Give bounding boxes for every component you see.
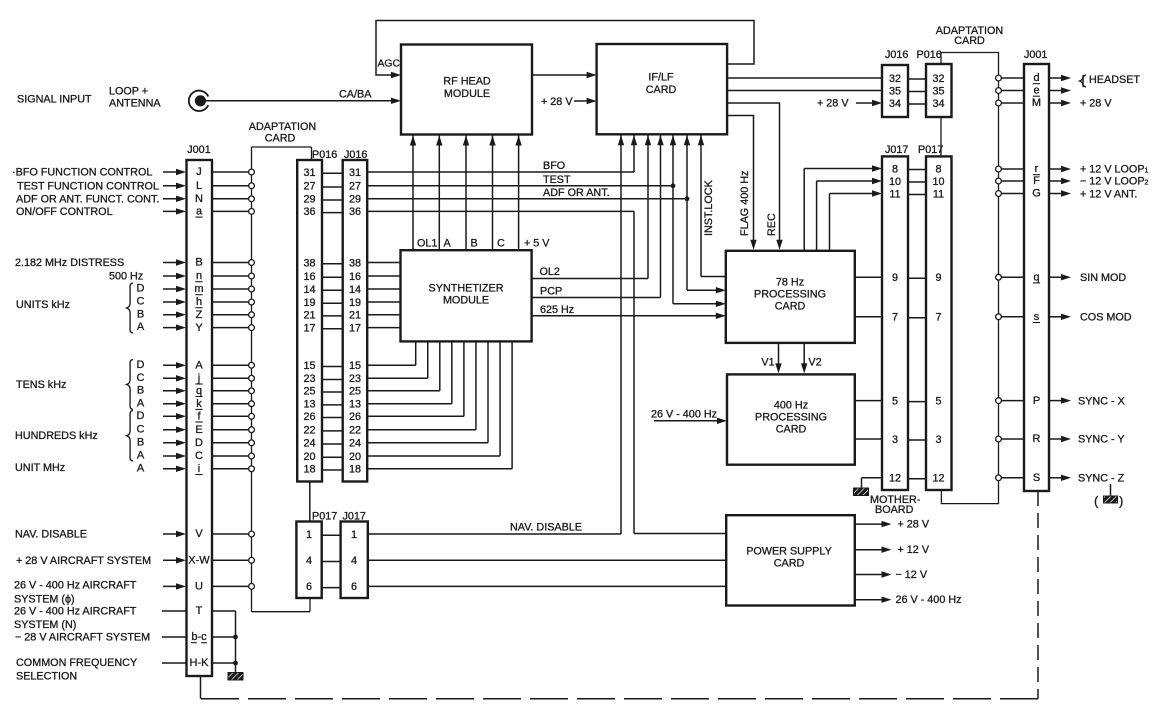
svg-text:A: A	[137, 397, 145, 409]
svg-text:TEST: TEST	[543, 174, 571, 186]
svg-text:8: 8	[935, 163, 941, 175]
svg-text:J: J	[196, 166, 202, 178]
svg-text:8: 8	[892, 163, 898, 175]
svg-text:36: 36	[303, 206, 315, 218]
svg-text:s: s	[1034, 311, 1040, 323]
svg-text:+ 12 V: + 12 V	[898, 544, 930, 556]
svg-text:20: 20	[349, 451, 361, 463]
svg-text:4: 4	[351, 555, 357, 567]
svg-text:P016: P016	[917, 49, 942, 61]
svg-text:TEST FUNCTION CONTROL: TEST FUNCTION CONTROL	[17, 180, 159, 192]
svg-text:q: q	[196, 385, 202, 397]
svg-text:29: 29	[349, 194, 361, 206]
svg-text:23: 23	[349, 373, 361, 385]
svg-text:CARD: CARD	[265, 132, 296, 144]
svg-text:P016: P016	[312, 149, 337, 161]
svg-text:9: 9	[892, 272, 898, 284]
svg-text:31: 31	[349, 167, 361, 179]
svg-text:Z: Z	[196, 309, 203, 321]
svg-text:B: B	[195, 257, 202, 269]
svg-text:b-c: b-c	[191, 631, 207, 643]
svg-text:1: 1	[351, 529, 357, 541]
svg-text:A: A	[137, 462, 145, 474]
svg-text:REC: REC	[766, 213, 778, 236]
svg-text:P017: P017	[312, 511, 337, 523]
svg-text:q: q	[1033, 271, 1039, 283]
svg-text:L: L	[196, 180, 202, 192]
svg-text:A: A	[444, 238, 452, 250]
svg-text:CA/BA: CA/BA	[339, 89, 372, 101]
svg-text:SYSTEM (ϕ): SYSTEM (ϕ)	[14, 594, 75, 606]
svg-text:35: 35	[932, 85, 944, 97]
svg-text:SELECTION: SELECTION	[16, 671, 77, 683]
svg-text:R: R	[1033, 433, 1041, 445]
svg-text:SYNC - Y: SYNC - Y	[1078, 434, 1125, 446]
svg-text:SIN MOD: SIN MOD	[1080, 272, 1126, 284]
svg-text:CARD: CARD	[646, 84, 677, 96]
svg-text:D: D	[137, 359, 145, 371]
svg-text:38: 38	[349, 257, 361, 269]
svg-text:V2: V2	[808, 357, 821, 369]
svg-text:M: M	[1032, 97, 1041, 109]
svg-text:ADF OR ANT.: ADF OR ANT.	[543, 187, 610, 199]
svg-text:ADF OR ANT. FUNCT. CONT.: ADF OR ANT. FUNCT. CONT.	[16, 193, 159, 205]
svg-text:27: 27	[349, 181, 361, 193]
svg-text:29: 29	[303, 194, 315, 206]
svg-text:10: 10	[889, 176, 901, 188]
svg-text:32: 32	[889, 73, 901, 85]
svg-text:m: m	[194, 283, 203, 295]
svg-text:11: 11	[889, 188, 900, 200]
svg-text:25: 25	[349, 386, 361, 398]
svg-text:4: 4	[306, 555, 312, 567]
svg-text:500 Hz: 500 Hz	[109, 271, 143, 283]
svg-text:U: U	[195, 581, 203, 593]
svg-text:TENS kHz: TENS kHz	[16, 379, 66, 391]
svg-text:B: B	[137, 384, 144, 396]
svg-text:SIGNAL INPUT: SIGNAL INPUT	[17, 94, 92, 106]
svg-text:32: 32	[932, 73, 944, 85]
svg-text:PROCESSING: PROCESSING	[754, 289, 826, 301]
svg-text:38: 38	[303, 257, 315, 269]
svg-text:B: B	[137, 308, 144, 320]
svg-text:11: 11	[933, 188, 944, 200]
svg-text:COMMON FREQUENCY: COMMON FREQUENCY	[16, 657, 137, 669]
svg-text:a: a	[196, 206, 203, 218]
svg-text:+ 5 V: + 5 V	[524, 238, 550, 250]
svg-text:C: C	[137, 372, 145, 384]
svg-text:j: j	[197, 373, 200, 385]
svg-text:NAV. DISABLE: NAV. DISABLE	[15, 529, 87, 541]
svg-text:e: e	[1033, 85, 1039, 97]
svg-text:SYSTEM (N): SYSTEM (N)	[14, 619, 76, 631]
svg-text:X-W: X-W	[188, 555, 210, 567]
svg-text:+ 28 V: + 28 V	[817, 98, 849, 110]
svg-text:CARD: CARD	[775, 301, 806, 313]
svg-text:J017: J017	[343, 511, 366, 523]
svg-text:SYNC - Z: SYNC - Z	[1078, 473, 1125, 485]
svg-text:36: 36	[349, 206, 361, 218]
svg-text:RF HEAD: RF HEAD	[443, 76, 491, 88]
svg-text:12: 12	[932, 473, 944, 485]
svg-text:·BFO FUNCTION CONTROL: ·BFO FUNCTION CONTROL	[12, 167, 152, 179]
svg-text:SYNTHETIZER: SYNTHETIZER	[429, 283, 504, 295]
svg-text:CARD: CARD	[774, 558, 805, 570]
svg-text:6: 6	[351, 581, 357, 593]
svg-text:15: 15	[303, 360, 315, 372]
svg-text:V1: V1	[761, 357, 774, 369]
svg-text:12: 12	[889, 473, 901, 485]
svg-text:17: 17	[349, 322, 361, 334]
svg-text:UNIT MHz: UNIT MHz	[15, 462, 65, 474]
svg-text:J017: J017	[885, 144, 908, 156]
svg-text:PCP: PCP	[540, 286, 562, 298]
svg-text:A: A	[137, 450, 145, 462]
svg-text:UNITS kHz: UNITS kHz	[16, 299, 70, 311]
svg-text:− 12 V LOOP2: − 12 V LOOP2	[1080, 176, 1149, 188]
svg-text:15: 15	[349, 360, 361, 372]
svg-text:D: D	[137, 283, 145, 295]
svg-text:+ 12 V ANT.: + 12 V ANT.	[1080, 189, 1137, 201]
svg-text:7: 7	[892, 312, 898, 324]
svg-text:C: C	[137, 423, 145, 435]
svg-text:5: 5	[935, 395, 941, 407]
svg-text:26: 26	[349, 411, 361, 423]
svg-text:r: r	[1035, 163, 1039, 175]
svg-text:26 V - 400 Hz AIRCRAFT: 26 V - 400 Hz AIRCRAFT	[14, 580, 137, 592]
svg-text:+ 28 V AIRCRAFT SYSTEM: + 28 V AIRCRAFT SYSTEM	[16, 555, 151, 567]
svg-text:D: D	[137, 410, 145, 422]
svg-text:5: 5	[892, 395, 898, 407]
svg-text:OL1: OL1	[417, 238, 437, 250]
svg-text:13: 13	[349, 399, 361, 411]
svg-text:+ 28 V: + 28 V	[898, 519, 930, 531]
svg-text:OL2: OL2	[540, 266, 560, 278]
svg-text:34: 34	[889, 98, 901, 110]
svg-text:LOOP +: LOOP +	[109, 86, 148, 98]
svg-text:10: 10	[932, 176, 944, 188]
svg-text:17: 17	[303, 322, 315, 334]
svg-text:A: A	[195, 360, 203, 372]
svg-text:− 12 V: − 12 V	[896, 569, 928, 581]
svg-text:COS MOD: COS MOD	[1080, 312, 1132, 324]
svg-text:27: 27	[303, 181, 315, 193]
svg-text:d: d	[1033, 72, 1039, 84]
svg-text:+ 12 V LOOP1: + 12 V LOOP1	[1080, 164, 1149, 176]
svg-text:625 Hz: 625 Hz	[540, 304, 574, 316]
svg-text:− 28 V AIRCRAFT SYSTEM: − 28 V AIRCRAFT SYSTEM	[15, 632, 150, 644]
svg-text:26 V - 400 Hz AIRCRAFT: 26 V - 400 Hz AIRCRAFT	[14, 606, 137, 618]
svg-text:MODULE: MODULE	[443, 295, 489, 307]
svg-text:MODULE: MODULE	[444, 88, 490, 100]
svg-text:J016: J016	[885, 49, 908, 61]
svg-text:HUNDREDS kHz: HUNDREDS kHz	[15, 430, 98, 442]
svg-text:31: 31	[303, 167, 315, 179]
svg-text:Y: Y	[195, 322, 203, 334]
svg-text:20: 20	[303, 451, 315, 463]
svg-text:1: 1	[306, 529, 312, 541]
svg-text:V: V	[195, 528, 203, 540]
svg-text:CARD: CARD	[954, 35, 985, 47]
svg-text:25: 25	[303, 386, 315, 398]
svg-text:G: G	[1032, 188, 1041, 200]
svg-text:2.182 MHz DISTRESS: 2.182 MHz DISTRESS	[15, 257, 124, 269]
svg-text:AGC: AGC	[378, 59, 401, 70]
svg-text:J001: J001	[187, 144, 210, 156]
svg-text:h: h	[196, 296, 202, 308]
svg-text:+ 28 V: + 28 V	[541, 96, 573, 108]
svg-text:T: T	[196, 605, 203, 617]
svg-text:22: 22	[349, 425, 361, 437]
svg-text:J001: J001	[1024, 49, 1047, 61]
svg-text:S: S	[1033, 472, 1040, 484]
svg-text:24: 24	[349, 438, 361, 450]
svg-text:34: 34	[932, 98, 944, 110]
svg-text:9: 9	[935, 272, 941, 284]
svg-text:21: 21	[349, 310, 361, 322]
svg-text:HEADSET: HEADSET	[1089, 74, 1140, 86]
svg-text:A: A	[137, 321, 145, 333]
svg-text:19: 19	[303, 297, 315, 309]
svg-text:+ 28 V: + 28 V	[1080, 98, 1112, 110]
svg-text:NAV. DISABLE: NAV. DISABLE	[510, 522, 582, 534]
svg-text:19: 19	[349, 297, 361, 309]
svg-text:FLAG 400 Hz: FLAG 400 Hz	[739, 171, 751, 236]
svg-text:3: 3	[892, 434, 898, 446]
svg-text:6: 6	[306, 581, 312, 593]
svg-text:7: 7	[935, 312, 941, 324]
svg-text:18: 18	[303, 464, 315, 476]
svg-text:F: F	[1033, 175, 1040, 187]
svg-text:B: B	[471, 238, 478, 250]
svg-text:): )	[1119, 494, 1123, 509]
svg-text:13: 13	[303, 399, 315, 411]
svg-text:35: 35	[889, 85, 901, 97]
svg-text:IF/LF: IF/LF	[648, 72, 674, 84]
svg-text:POWER SUPPLY: POWER SUPPLY	[746, 546, 832, 558]
svg-text:18: 18	[349, 464, 361, 476]
svg-text:21: 21	[303, 310, 315, 322]
svg-text:PROCESSING: PROCESSING	[755, 412, 827, 424]
svg-text:(: (	[1094, 494, 1099, 509]
svg-text:E: E	[195, 424, 202, 436]
svg-text:BOARD: BOARD	[875, 504, 914, 516]
svg-text:BFO: BFO	[543, 160, 565, 172]
svg-text:16: 16	[303, 271, 315, 283]
svg-text:14: 14	[349, 284, 361, 296]
svg-text:24: 24	[303, 438, 315, 450]
svg-text:78 Hz: 78 Hz	[776, 277, 804, 289]
svg-text:22: 22	[303, 425, 315, 437]
svg-text:14: 14	[303, 284, 315, 296]
svg-text:P017: P017	[918, 144, 943, 156]
svg-text:400 Hz: 400 Hz	[774, 400, 808, 412]
svg-text:C: C	[195, 450, 203, 462]
svg-text:SYNC - X: SYNC - X	[1078, 396, 1125, 408]
svg-text:3: 3	[935, 434, 941, 446]
svg-text:n: n	[196, 270, 202, 282]
svg-text:ADAPTATION: ADAPTATION	[249, 121, 316, 133]
svg-text:H-K: H-K	[190, 657, 210, 669]
svg-text:23: 23	[303, 373, 315, 385]
svg-text:ON/OFF CONTROL: ON/OFF CONTROL	[16, 206, 113, 218]
svg-text:CARD: CARD	[776, 424, 807, 436]
svg-text:B: B	[137, 436, 144, 448]
svg-text:26 V - 400 Hz: 26 V - 400 Hz	[651, 409, 717, 421]
svg-text:C: C	[137, 296, 145, 308]
svg-text:i: i	[198, 463, 200, 475]
svg-text:26 V - 400 Hz: 26 V - 400 Hz	[896, 594, 962, 606]
svg-text:P: P	[1033, 395, 1040, 407]
svg-text:D: D	[195, 437, 203, 449]
svg-text:N: N	[195, 193, 203, 205]
svg-text:ANTENNA: ANTENNA	[109, 98, 161, 110]
svg-text:16: 16	[349, 271, 361, 283]
svg-text:INST.LOCK: INST.LOCK	[703, 179, 715, 236]
svg-text:C: C	[497, 238, 505, 250]
svg-text:J016: J016	[344, 149, 367, 161]
svg-text:k: k	[196, 398, 202, 410]
svg-text:26: 26	[303, 411, 315, 423]
